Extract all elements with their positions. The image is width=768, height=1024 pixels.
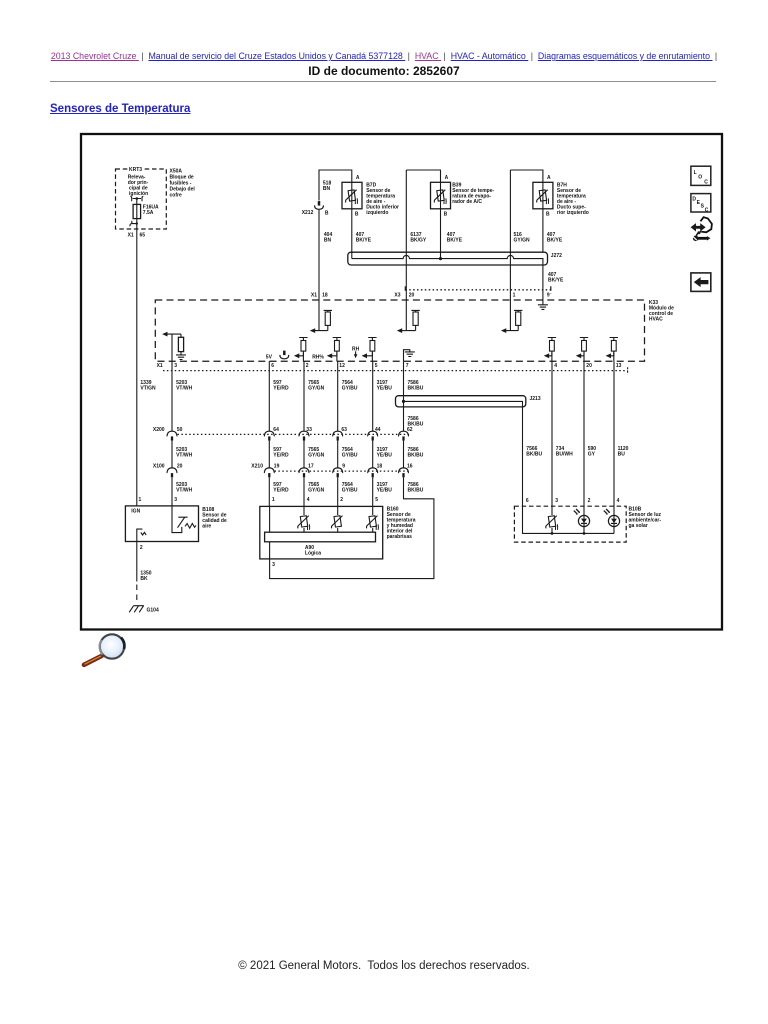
svg-text:GY/BU: GY/BU xyxy=(342,487,358,493)
in-line connector X212 xyxy=(302,201,329,216)
svg-text:GY/GN: GY/GN xyxy=(308,386,325,392)
svg-text:BN: BN xyxy=(323,186,331,192)
svg-text:RH%: RH% xyxy=(312,354,324,360)
HVAC control module K33 dashed box xyxy=(155,300,644,361)
K33 pull-up resistor pin X3-20 xyxy=(411,310,419,330)
sensor B160 box xyxy=(260,506,383,559)
K33 pin 13 arrow xyxy=(606,352,614,361)
wire 5203 VT/WH upper xyxy=(171,361,173,431)
sensor B160 pin labels xyxy=(272,497,378,503)
wire 1350 BK xyxy=(136,542,138,582)
B10B photodiode left xyxy=(574,509,590,527)
splice pack J213 xyxy=(396,396,541,407)
svg-text:B: B xyxy=(325,210,329,216)
routing icon xyxy=(691,217,712,241)
wire 734 BU/WH xyxy=(551,361,553,506)
svg-text:A: A xyxy=(547,175,551,181)
svg-text:rador de A/C: rador de A/C xyxy=(452,199,482,205)
sensor B10B pin labels xyxy=(526,498,620,504)
svg-text:YE/BU: YE/BU xyxy=(377,487,393,493)
svg-text:GY/BU: GY/BU xyxy=(342,452,358,458)
svg-text:B: B xyxy=(546,212,550,218)
wire 597 YE/RD lower xyxy=(268,477,270,506)
K33 pull-up resistor pin X3-1 xyxy=(514,310,522,330)
svg-text:18: 18 xyxy=(322,292,328,298)
svg-text:3: 3 xyxy=(174,363,177,369)
wire 404 BN to K33 X1-18 xyxy=(318,210,320,300)
svg-text:IGN: IGN xyxy=(131,509,140,515)
svg-text:1: 1 xyxy=(513,292,516,298)
connector X1 dotted row xyxy=(163,367,628,374)
relay KRT3 description xyxy=(128,175,149,198)
svg-text:B: B xyxy=(355,212,359,218)
svg-text:X200: X200 xyxy=(153,427,165,433)
fuse block X50A dashed box xyxy=(116,169,167,229)
sensor B10B name xyxy=(629,507,662,530)
svg-text:GY/BU: GY/BU xyxy=(342,386,358,392)
wire 3197 YE/BU lower xyxy=(372,477,374,506)
sensor B7H box xyxy=(533,182,553,209)
connector X1 bottom row labels xyxy=(157,363,622,369)
K33 pin 2 circuit: 5V output arrow and resistor xyxy=(294,352,304,361)
wire 3197 YE/BU middle xyxy=(372,441,374,469)
svg-text:BU/WH: BU/WH xyxy=(556,452,573,458)
svg-text:3: 3 xyxy=(174,497,177,503)
K33 resistor pin 2 xyxy=(299,338,307,356)
svg-text:GY/GN: GY/GN xyxy=(308,452,325,458)
K33 pin 3 circuit: arrow and pull-down xyxy=(162,332,183,362)
connector X200 terminal 7564 xyxy=(333,431,343,440)
wire 7565 GY/GN upper xyxy=(303,361,305,431)
svg-text:BK/BU: BK/BU xyxy=(408,386,424,392)
svg-text:YE/RD: YE/RD xyxy=(273,487,289,493)
sensor B39 name xyxy=(452,183,494,206)
svg-text:rior izquierdo: rior izquierdo xyxy=(557,210,589,216)
module K33 label xyxy=(649,300,674,323)
connector X1 pin 65 xyxy=(128,233,146,239)
B160 thermistor 2 xyxy=(366,516,378,530)
svg-text:50: 50 xyxy=(177,427,183,433)
svg-text:YE/BU: YE/BU xyxy=(377,452,393,458)
connector X210 terminal 3197 xyxy=(368,468,378,477)
wire 7564 GY/BU middle xyxy=(337,441,339,469)
svg-text:3: 3 xyxy=(555,498,558,504)
svg-text:VT/WH: VT/WH xyxy=(176,386,192,392)
sensor B39 box xyxy=(431,182,451,209)
svg-text:VT/WH: VT/WH xyxy=(176,487,192,493)
B10B internal bus xyxy=(523,506,615,533)
sensor B108 pin labels xyxy=(139,497,178,503)
K33 pin 5 arrow xyxy=(362,352,373,361)
svg-text:BK/YE: BK/YE xyxy=(356,237,372,243)
sensor B7D name xyxy=(366,183,399,217)
svg-text:YE/RD: YE/RD xyxy=(273,452,289,458)
svg-text:20: 20 xyxy=(409,292,415,298)
DESC button xyxy=(691,194,711,214)
svg-text:A: A xyxy=(356,175,360,181)
B160 thermistor 1 xyxy=(298,516,310,530)
K33 resistor pin 12 xyxy=(333,338,341,356)
svg-text:5: 5 xyxy=(375,363,378,369)
B10B photodiode right xyxy=(604,509,620,527)
sensor B108 name xyxy=(202,507,227,530)
svg-text:63: 63 xyxy=(341,427,347,433)
svg-text:2: 2 xyxy=(588,498,591,504)
svg-text:BK/YE: BK/YE xyxy=(447,237,463,243)
B160 humidity sensor xyxy=(331,516,342,529)
svg-text:9: 9 xyxy=(342,463,345,469)
sensor B160 name xyxy=(387,507,416,541)
svg-text:18: 18 xyxy=(377,463,383,469)
sensor B10B dashed box xyxy=(514,506,626,542)
svg-text:X210: X210 xyxy=(251,463,263,469)
sensor B108 box xyxy=(125,506,198,542)
K33 pin 4 arrow xyxy=(544,352,552,361)
5V reference terminal xyxy=(280,351,289,359)
wire 407 BK/YE from B7D xyxy=(351,209,353,259)
K33 internal ground pin 7 xyxy=(404,350,415,362)
svg-text:KRT3: KRT3 xyxy=(129,167,142,173)
connector X3 row xyxy=(394,286,552,298)
svg-text:BK/BU: BK/BU xyxy=(408,487,424,493)
magnifier icon xyxy=(84,634,124,665)
svg-text:2: 2 xyxy=(306,363,309,369)
svg-text:izquierdo: izquierdo xyxy=(366,210,388,216)
svg-text:BK/BU: BK/BU xyxy=(408,452,424,458)
section title link xyxy=(50,103,190,115)
wire 407 BK/YE to K33 X3-9 xyxy=(542,265,544,300)
svg-text:BN: BN xyxy=(324,237,332,243)
svg-text:4: 4 xyxy=(554,363,557,369)
sensor B39 circuit: top hat wire xyxy=(406,170,440,182)
K33 pull-up resistor pin 18 xyxy=(324,310,332,330)
svg-text:X212: X212 xyxy=(302,210,314,216)
wire 7586 BK/BU lower with jog xyxy=(270,477,434,578)
svg-text:parabrisas: parabrisas xyxy=(387,534,413,540)
logic module A90 xyxy=(265,532,376,556)
svg-text:12: 12 xyxy=(339,363,345,369)
svg-text:2: 2 xyxy=(340,497,343,503)
breadcrumb nav xyxy=(0,51,768,61)
svg-text:X100: X100 xyxy=(153,463,165,469)
RH sensor symbol xyxy=(352,347,360,359)
svg-text:C: C xyxy=(704,179,708,185)
svg-text:1: 1 xyxy=(272,497,275,503)
schematic frame xyxy=(81,134,722,630)
junction dot 590 xyxy=(583,532,586,535)
svg-text:13: 13 xyxy=(616,363,622,369)
K33 resistor pin 4 xyxy=(548,338,556,356)
svg-text:L: L xyxy=(694,170,697,176)
wire 516 GY/GN to K33 X3-1 xyxy=(509,170,511,300)
wire 7564 GY/BU upper xyxy=(337,361,339,431)
svg-text:X1: X1 xyxy=(128,233,134,239)
connector X200 terminal 7586 xyxy=(399,431,409,440)
svg-text:62: 62 xyxy=(407,427,413,433)
K33 resistor pin 13 xyxy=(610,338,618,356)
back button xyxy=(691,273,711,292)
svg-text:G104: G104 xyxy=(147,607,159,613)
ground G104 xyxy=(129,606,159,614)
wire 407 BK/YE from B7H xyxy=(542,209,544,252)
wire 597 YE/RD middle xyxy=(268,441,270,469)
connector X210 terminal 7586 xyxy=(399,468,409,477)
svg-text:BU: BU xyxy=(618,452,626,458)
wire 7586 BK/BU middle xyxy=(403,441,405,469)
svg-text:64: 64 xyxy=(273,427,279,433)
fuse F16UA 7.5A xyxy=(133,204,159,218)
svg-text:7.5A: 7.5A xyxy=(143,210,154,216)
wire 5203 VT/WH lower xyxy=(171,477,173,506)
svg-text:19: 19 xyxy=(274,463,280,469)
wire 590 GY xyxy=(583,361,585,506)
LOC button xyxy=(691,166,711,185)
svg-text:Lógica: Lógica xyxy=(305,551,321,557)
svg-text:X1: X1 xyxy=(157,363,163,369)
svg-text:BK: BK xyxy=(140,576,148,582)
svg-text:HVAC: HVAC xyxy=(649,316,663,322)
relay KRT3 contact xyxy=(130,196,143,204)
K33 internal ground pin 3 xyxy=(176,355,186,360)
wire fuse to X1-65 xyxy=(136,219,138,237)
connector X50A label xyxy=(170,169,196,199)
connector X210 row xyxy=(251,463,412,471)
document id xyxy=(0,64,768,78)
wire 1120 BU xyxy=(613,361,615,506)
junction dot 734 xyxy=(551,532,554,535)
thermistor B7H xyxy=(537,190,549,204)
svg-text:C: C xyxy=(705,207,709,213)
K33 input pin X3-20: wire and arrow xyxy=(397,300,416,333)
svg-text:6: 6 xyxy=(271,363,274,369)
svg-text:6: 6 xyxy=(526,498,529,504)
B160 internal wires xyxy=(270,506,373,532)
relay KRT3 label xyxy=(128,166,145,173)
svg-text:VT/WH: VT/WH xyxy=(176,452,192,458)
connector X210 terminal 7565 xyxy=(299,468,309,477)
K33 resistor pin 20 xyxy=(580,338,588,356)
connector X200 row xyxy=(153,427,413,434)
svg-text:GY/GN: GY/GN xyxy=(308,487,325,493)
svg-text:J272: J272 xyxy=(551,253,562,259)
connector X200 terminal 5203 xyxy=(167,431,177,440)
header rule xyxy=(50,81,716,82)
svg-text:65: 65 xyxy=(140,233,146,239)
svg-text:4: 4 xyxy=(617,498,620,504)
sensor B7H name xyxy=(557,183,589,217)
wire 7586 BK/BU upper xyxy=(403,361,405,396)
connector X210 terminal 7564 xyxy=(333,468,343,477)
svg-text:20: 20 xyxy=(177,463,183,469)
svg-text:X3: X3 xyxy=(394,292,400,298)
splice pack J272 xyxy=(348,252,562,265)
thermistor B7D xyxy=(346,190,358,204)
svg-text:B: B xyxy=(444,212,448,218)
K33 pin 20 arrow xyxy=(576,352,584,361)
svg-text:5: 5 xyxy=(375,497,378,503)
svg-text:2: 2 xyxy=(140,545,143,551)
svg-text:17: 17 xyxy=(308,463,314,469)
svg-text:16: 16 xyxy=(407,463,413,469)
sensor B7D box xyxy=(342,182,362,209)
B108 sense element xyxy=(172,506,196,533)
svg-text:BK/GY: BK/GY xyxy=(410,237,427,243)
svg-text:3: 3 xyxy=(272,562,275,568)
svg-text:VT/GN: VT/GN xyxy=(140,386,156,392)
connector X200 terminal 597 xyxy=(264,431,274,440)
connector X100 terminal xyxy=(167,468,177,477)
wire 597 YE/RD upper xyxy=(268,361,270,431)
wire 7564 GY/BU lower xyxy=(337,477,339,506)
B108 heater element xyxy=(137,529,146,541)
svg-text:BK/YE: BK/YE xyxy=(548,277,564,283)
fuse clip xyxy=(130,221,138,226)
connector X1 pin 18 labels xyxy=(311,292,328,298)
sensor B7H circuit: top hat wire xyxy=(510,170,543,182)
connector X210 terminal 597 xyxy=(264,468,274,477)
K33 resistor pin 5 xyxy=(368,338,376,356)
svg-text:BK/BU: BK/BU xyxy=(526,452,542,458)
svg-text:X1: X1 xyxy=(311,292,317,298)
thermistor B39 xyxy=(434,190,446,204)
svg-text:BK/YE: BK/YE xyxy=(547,237,563,243)
svg-text:1: 1 xyxy=(139,497,142,503)
svg-text:ignición: ignición xyxy=(129,191,148,197)
connector X200 terminal 7565 xyxy=(299,431,309,440)
svg-text:YE/RD: YE/RD xyxy=(273,386,289,392)
svg-text:cofre: cofre xyxy=(170,193,182,199)
svg-text:J213: J213 xyxy=(530,396,541,402)
B10B ambient thermistor xyxy=(546,516,558,530)
wire to G104 dashed xyxy=(136,585,138,603)
svg-text:YE/BU: YE/BU xyxy=(377,386,393,392)
wire 3197 YE/BU upper xyxy=(372,361,374,431)
sensor B7D circuit: top hat wire xyxy=(319,170,352,201)
wire 7566 BK/BU from J213 xyxy=(522,407,524,506)
wire 407 BK/YE from B39 xyxy=(440,209,442,259)
svg-text:ga solar: ga solar xyxy=(629,523,648,529)
svg-text:4: 4 xyxy=(307,497,310,503)
svg-text:9: 9 xyxy=(547,292,550,298)
svg-text:7: 7 xyxy=(406,363,409,369)
wire 7565 GY/GN middle xyxy=(303,441,305,469)
svg-text:GY/GN: GY/GN xyxy=(514,237,531,243)
svg-text:A: A xyxy=(445,175,449,181)
wire 6137 BK/GY to K33 X3-20 xyxy=(405,170,407,300)
K33 internal ground pin X3-9 xyxy=(538,300,548,309)
wire 1339 VT/GN xyxy=(136,237,138,506)
wire 5203 VT/WH middle xyxy=(171,441,173,469)
wire 7565 GY/GN lower xyxy=(303,477,305,506)
footer copyright xyxy=(0,960,768,972)
wire 7586 BK/BU below J213 xyxy=(403,396,405,432)
connector X200 terminal 3197 xyxy=(368,431,378,440)
svg-text:aire: aire xyxy=(202,523,211,529)
svg-text:GY: GY xyxy=(588,452,596,458)
K33 input pin 18: wire and arrow xyxy=(310,300,328,333)
RH% signal arrow xyxy=(312,352,337,361)
svg-text:5V: 5V xyxy=(266,354,273,360)
wire 518 BN label xyxy=(323,181,332,193)
K33 input pin X3-1: wire and arrow xyxy=(501,300,518,333)
connector X100 xyxy=(153,463,183,469)
svg-text:20: 20 xyxy=(586,363,592,369)
svg-text:O: O xyxy=(698,175,702,181)
